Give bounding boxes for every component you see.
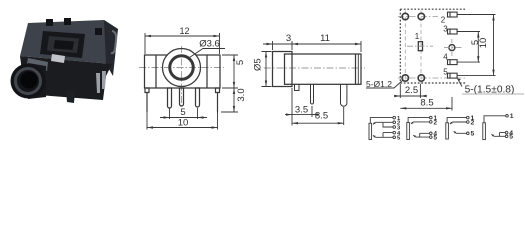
svg-text:Ø5: Ø5 — [253, 58, 264, 71]
svg-text:1: 1 — [510, 113, 514, 120]
front: dim 10 ext lines — [147, 112, 218, 130]
photo: pin right 2 — [102, 71, 106, 89]
schematic S4: wire pin5 with ring contact — [491, 134, 505, 136]
side: dim 3-11 line — [263, 43, 361, 45]
schematic S2: wire pin4 elbow — [420, 133, 430, 137]
photo: mould peg 2 — [64, 18, 71, 25]
schematic S4: wire pin4 elbow — [500, 133, 506, 137]
front: dim 5 bottom ext lines — [170, 108, 198, 119]
front: dim 12 line — [145, 35, 220, 37]
footprint: hole bottom-left — [402, 75, 408, 81]
photo: barrel top light — [26, 58, 48, 71]
front: pin mid-right — [196, 88, 200, 107]
svg-text:1: 1 — [415, 32, 420, 41]
schematic S2: wire pin5 with ring contact — [413, 135, 429, 137]
footprint: dim 5 line — [477, 32, 479, 63]
front: dim 3.0 line — [233, 88, 235, 112]
footprint: label 5-Ø1.2 underline and leader — [366, 80, 403, 88]
photo: mould peg 1 — [46, 19, 53, 26]
schematic S1: terminal 1 — [393, 116, 396, 119]
schematic S4: jack barrel J4 — [483, 123, 486, 140]
schematic S3: wire pin5 with ring contact — [454, 131, 467, 133]
photo: barrel ring — [16, 69, 41, 94]
footprint: pin1 centerline — [407, 45, 433, 47]
front: dim 12 extension lines — [145, 33, 220, 54]
schematic S1: wire pin4 elbow — [383, 133, 393, 137]
footprint: label underline — [462, 93, 524, 95]
side: dim 3 arrows — [267, 43, 299, 45]
side: dim 3.5 ext lines — [292, 88, 312, 126]
schematic S2: wire pin2 with tip contact — [411, 122, 430, 124]
svg-text:2: 2 — [441, 16, 446, 25]
front: dim 12 arrows — [145, 35, 220, 37]
side: horizontal centerline — [264, 67, 365, 69]
footprint: dim 8.5 line — [400, 107, 452, 109]
schematic S3: jack barrel J3 — [446, 123, 449, 139]
photo: top recess inner — [47, 36, 79, 53]
footprint: centerline row top — [398, 16, 438, 18]
front: body rectangle — [145, 55, 221, 88]
svg-text:2: 2 — [471, 119, 475, 126]
photo: connector 3D body — [11, 18, 119, 103]
front: dim 10 arrows — [147, 126, 218, 128]
footprint: dim 10 arrows — [492, 15, 494, 76]
svg-text:5: 5 — [471, 131, 475, 138]
photo: mould peg 3 — [95, 28, 102, 35]
front: pin mid-left — [168, 88, 172, 108]
front: pin left thin — [145, 88, 149, 112]
side: pin C — [341, 84, 347, 106]
photo: middle foot — [66, 90, 75, 103]
svg-text:12: 12 — [179, 26, 189, 36]
footprint: ext lines right — [458, 15, 496, 76]
schematic S1: wire pin3 elbow — [383, 123, 393, 127]
svg-text:8.5: 8.5 — [420, 98, 433, 109]
footprint: hole bottom-right — [418, 75, 424, 81]
svg-text:3.0: 3.0 — [236, 88, 247, 101]
footprint: dim 2.5 arrows — [394, 95, 426, 97]
schematic S2: wire pin1 — [408, 118, 429, 123]
side: dim 8.5 ext line — [343, 107, 345, 125]
svg-text:2.5: 2.5 — [405, 85, 418, 96]
side: body inner line right 2 — [357, 54, 359, 84]
side: body rectangle — [285, 54, 362, 84]
front: label Ø3.6 leader — [190, 49, 226, 58]
svg-text:3: 3 — [443, 25, 448, 34]
footprint: center hole crosshair v — [451, 39, 453, 57]
svg-text:5-Ø1.2: 5-Ø1.2 — [366, 79, 392, 89]
side: pin A stub — [295, 84, 300, 90]
front: dim 3.0 arrows — [233, 88, 235, 112]
front: left block line — [155, 55, 157, 88]
side: dim 3.5 arrows — [286, 113, 318, 115]
side: body inner line right — [355, 54, 357, 84]
front: nut ring thick — [170, 56, 194, 80]
side: dim Ø5 arrows — [265, 52, 267, 87]
schematic S1: wire pin5 with ring contact — [373, 135, 393, 137]
photo: top recess — [40, 31, 85, 58]
svg-text:5: 5 — [235, 60, 246, 65]
svg-text:4: 4 — [443, 53, 448, 62]
svg-text:5: 5 — [397, 136, 401, 142]
front: pin center — [180, 88, 184, 106]
photo: barrel face — [11, 64, 46, 99]
svg-text:5: 5 — [443, 68, 448, 77]
front: pin right thin — [216, 88, 220, 112]
footprint: label 5-(1.5±0.8) leader — [458, 79, 463, 87]
footprint: slot pin3 — [448, 29, 458, 34]
front: dim 5 line — [233, 55, 235, 88]
svg-text:5: 5 — [180, 107, 185, 118]
svg-text:2: 2 — [434, 119, 438, 126]
footprint: dim 2.5 ext lines — [400, 84, 420, 98]
footprint: dim 2.5 line — [394, 95, 427, 97]
footprint: hole top-left — [402, 13, 408, 19]
photo: top face — [20, 20, 118, 64]
schematic S4: wire pin1 — [484, 116, 506, 123]
front: right block line — [206, 55, 208, 88]
footprint: dashed body outline — [400, 9, 466, 83]
front: dim 5 bottom line — [160, 117, 207, 119]
footprint: centerline col A — [404, 11, 406, 85]
front: dim 10 line — [147, 127, 218, 129]
photo: front face — [20, 56, 112, 100]
side: dim 8.5 arrows — [292, 122, 344, 124]
svg-text:3.5: 3.5 — [295, 105, 308, 116]
svg-text:5: 5 — [434, 135, 438, 142]
front: horizontal centerline — [139, 67, 224, 69]
front: vertical centerline — [181, 46, 183, 108]
svg-text:8.5: 8.5 — [315, 111, 328, 122]
svg-text:10: 10 — [178, 118, 189, 129]
footprint: slot pin2 — [448, 12, 458, 17]
footprint: slot pin5 — [448, 73, 458, 78]
side: dim 3.5 line — [285, 114, 319, 116]
side: dim Ø5 line — [265, 52, 267, 87]
svg-text:10: 10 — [478, 38, 489, 49]
schematic S3: wire pin2 with tip contact — [450, 122, 467, 124]
footprint: slot pin4 — [448, 60, 458, 65]
footprint: center hole crosshair h — [444, 47, 462, 49]
schematic S2: jack barrel J2 — [407, 123, 410, 140]
schematic S1: wire pin1 — [370, 118, 393, 123]
photo: barrel hole — [21, 72, 38, 89]
photo: top recess slot — [54, 40, 75, 50]
schematic S3: wire pin1 — [447, 118, 466, 123]
svg-text:3: 3 — [286, 33, 291, 44]
footprint: centerline row bottom — [398, 77, 466, 79]
front: right dims extension lines — [221, 55, 238, 112]
photo: barrel cylinder — [28, 63, 46, 99]
footprint: dim 5 arrows — [477, 32, 479, 63]
footprint: dim 8.5 ext line — [451, 97, 453, 111]
footprint: centerline col B — [420, 11, 422, 85]
photo: side clip highlight — [111, 31, 116, 53]
side: dim 8.5 line — [292, 122, 344, 124]
footprint: hole top-right — [418, 13, 424, 19]
photo: pin right 1 — [96, 73, 100, 93]
side: pin B — [311, 84, 314, 104]
photo: metal contact in slot — [51, 54, 65, 63]
svg-text:Ø3.6: Ø3.6 — [199, 39, 220, 50]
footprint: slot pin1 — [418, 42, 422, 51]
footprint: center hole — [449, 45, 455, 51]
front: dim 5 bottom arrows — [164, 116, 204, 118]
schematic S1: jack barrel J1 — [369, 123, 372, 139]
photo: right side face — [104, 20, 118, 76]
schematic S1: wire pin2 with tip contact — [373, 122, 393, 124]
footprint: dim 10 line — [493, 15, 495, 76]
svg-text:11: 11 — [320, 33, 330, 44]
front: dim 5 arrows — [233, 55, 235, 88]
front: boss circle — [163, 49, 201, 87]
side: barrel rectangle — [273, 52, 293, 87]
svg-text:5: 5 — [509, 134, 513, 141]
side: dim 11 arrow — [355, 43, 361, 45]
side: dim 3-11 ext lines — [273, 41, 362, 52]
footprint: dim 8.5 arrows — [400, 107, 452, 109]
side: dim Ø5 ext lines — [262, 52, 272, 87]
